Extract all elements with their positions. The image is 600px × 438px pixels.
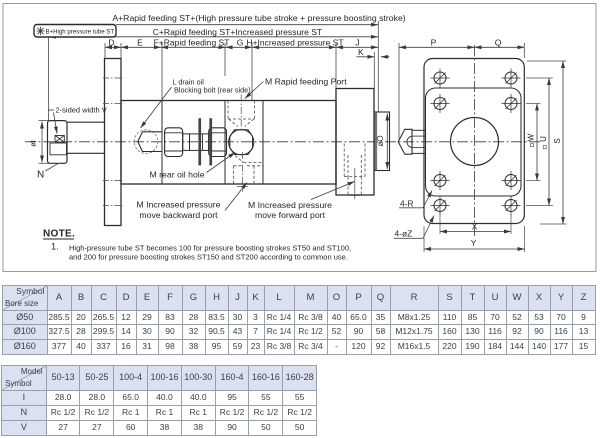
svg-text:move backward port: move backward port — [139, 210, 218, 220]
svg-text:A+Rapid feeding ST+(High press: A+Rapid feeding ST+(High pressure tube s… — [112, 13, 405, 23]
svg-text:P: P — [431, 37, 437, 47]
svg-text:W: W — [527, 133, 536, 141]
svg-text:2-sided width V: 2-sided width V — [56, 106, 107, 115]
svg-text:NOTE.: NOTE. — [43, 229, 75, 240]
svg-text:Blocking bolt (rear side): Blocking bolt (rear side) — [174, 86, 251, 95]
svg-text:E: E — [137, 37, 143, 47]
svg-text:and 200 for pressure boosting: and 200 for pressure boosting strokes ST… — [69, 253, 348, 262]
svg-text:Y: Y — [471, 238, 477, 248]
svg-text:move forward port: move forward port — [255, 210, 326, 220]
svg-text:High-pressure tube ST becomes: High-pressure tube ST becomes 100 for pr… — [69, 243, 351, 252]
svg-text:B+High pressure tube ST: B+High pressure tube ST — [46, 29, 115, 36]
svg-text:4-øZ: 4-øZ — [395, 229, 413, 239]
svg-text:M Increased pressure: M Increased pressure — [248, 200, 332, 210]
svg-text:F+Rapid feeding ST: F+Rapid feeding ST — [154, 37, 230, 47]
svg-text:G: G — [237, 37, 244, 47]
svg-text:øI: øI — [29, 140, 38, 147]
svg-text:N: N — [37, 170, 44, 181]
svg-text:D: D — [108, 37, 114, 47]
svg-text:H+Increased pressure ST: H+Increased pressure ST — [246, 37, 343, 47]
svg-text:4-R: 4-R — [400, 199, 414, 209]
svg-text:M Increased pressure: M Increased pressure — [136, 200, 220, 210]
svg-text:X: X — [472, 222, 478, 232]
svg-text:Q: Q — [495, 37, 502, 47]
svg-text:U: U — [539, 136, 548, 142]
svg-text:K: K — [358, 47, 364, 57]
svg-text:J: J — [355, 37, 359, 47]
svg-text:S: S — [553, 138, 562, 143]
svg-text:C+Rapid feeding ST+Increased p: C+Rapid feeding ST+Increased pressure ST — [153, 27, 323, 37]
svg-text:M Rapid feeding Port: M Rapid feeding Port — [265, 76, 347, 86]
svg-text:M rear oil hole: M rear oil hole — [150, 169, 205, 179]
svg-text:øO: øO — [376, 135, 385, 146]
svg-text:1.: 1. — [51, 241, 59, 251]
